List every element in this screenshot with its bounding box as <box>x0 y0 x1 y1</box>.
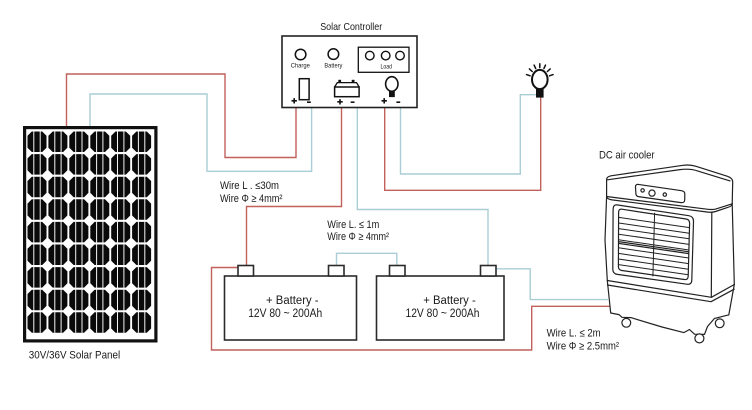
wire: controller port3 + (red) to lamp DS1 <box>385 97 541 190</box>
port3 - <box>396 101 400 103</box>
wire: panel + (red) to controller port1 + <box>67 74 297 158</box>
lamp DS1 bulb <box>532 70 548 89</box>
lamp DS1 base <box>536 89 544 98</box>
svg-text:Solar Controller: Solar Controller <box>320 21 382 33</box>
solar panel cell grid <box>28 132 152 333</box>
cooler caster front-mid <box>695 334 704 343</box>
cooler caster rear-right <box>715 319 724 328</box>
cooler tank top band <box>607 281 734 302</box>
solar panel PV1 frame <box>25 128 156 341</box>
port2 + <box>337 99 342 104</box>
svg-text:+ Battery -: + Battery - <box>266 295 319 307</box>
svg-text:Wire L. ≤ 2m: Wire L. ≤ 2m <box>547 328 601 340</box>
wire: controller port2 + (red) to battery B1 + terminal <box>247 107 342 266</box>
port2 - <box>351 101 355 103</box>
svg-text:Wire Φ ≥ 4mm²: Wire Φ ≥ 4mm² <box>327 231 389 243</box>
cooler body outline <box>605 197 734 285</box>
svg-text:+ Battery -: + Battery - <box>423 295 476 307</box>
cooler caster front-left <box>622 318 631 327</box>
load indicator box <box>358 47 409 72</box>
svg-text:Wire L . ≤30m: Wire L . ≤30m <box>220 180 279 192</box>
cooler panel button 2 <box>663 193 666 196</box>
cooler panel knob <box>649 190 655 196</box>
cooler grille outer frame <box>613 205 694 284</box>
cooler grille slats <box>618 213 689 277</box>
lamp DS1 rays <box>527 64 554 76</box>
svg-text:12V 80 ~ 200Ah: 12V 80 ~ 200Ah <box>406 308 480 320</box>
port2 battery icon <box>335 80 360 97</box>
cooler grille inner frame <box>618 209 689 279</box>
cooler body front-right edge <box>710 212 713 297</box>
battery B1 - terminal <box>329 266 345 277</box>
cooler grille mid divider <box>619 242 689 254</box>
load LED 2 <box>381 51 390 60</box>
wire: series jumper battery B1 - to battery B2 + (blue) <box>337 253 397 265</box>
cooler lid slab <box>607 165 733 212</box>
port3 + <box>382 98 387 103</box>
DC air cooler M1 <box>605 165 734 297</box>
indicator LED Battery <box>328 49 339 60</box>
svg-text:Battery: Battery <box>324 63 343 70</box>
battery B1 body <box>225 276 357 340</box>
svg-text:DC air cooler: DC air cooler <box>599 150 655 162</box>
battery B2 + terminal <box>390 266 406 277</box>
svg-text:12V 80 ~ 200Ah: 12V 80 ~ 200Ah <box>248 308 322 320</box>
wire: battery B1 + to DC air cooler + (red) <box>212 268 611 351</box>
solar panel cell finger lines <box>34 132 145 333</box>
indicator LED Charge <box>295 49 306 60</box>
svg-text:Wire Φ ≥ 2.5mm²: Wire Φ ≥ 2.5mm² <box>547 340 620 352</box>
wire: controller port3 - (blue) to lamp DS1 <box>401 95 537 174</box>
port1 - <box>307 101 311 103</box>
battery B1 + terminal <box>238 266 254 277</box>
cooler lid top face inner edge <box>608 169 731 181</box>
port1 + <box>292 98 297 103</box>
svg-text:Wire Φ ≥ 4mm²: Wire Φ ≥ 4mm² <box>220 193 283 205</box>
solar controller U1 box <box>282 36 417 108</box>
cooler control panel <box>635 184 684 202</box>
port3 lamp icon <box>386 77 398 97</box>
svg-text:Wire L. ≤ 1m: Wire L. ≤ 1m <box>327 219 379 231</box>
load LED 1 <box>366 51 375 60</box>
wire: panel - (blue) to controller port1 - <box>90 94 312 171</box>
wire: battery B2 - to DC air cooler - (blue) <box>497 269 609 300</box>
wire: controller port2 - (blue) to battery B2 - terminal <box>357 107 488 266</box>
cooler lid front bottom edge <box>607 197 733 210</box>
cooler panel button 1 <box>641 189 644 192</box>
svg-text:Load: Load <box>381 63 393 70</box>
cooler tank outline <box>607 281 734 335</box>
cooler grille center vertical <box>653 213 655 277</box>
svg-text:Charge: Charge <box>291 63 311 70</box>
battery B2 - terminal <box>481 266 497 277</box>
svg-text:30V/36V Solar Panel: 30V/36V Solar Panel <box>29 350 120 362</box>
port1 solar panel icon <box>299 79 309 100</box>
battery B2 body <box>377 276 505 340</box>
load LED 3 <box>396 51 405 60</box>
